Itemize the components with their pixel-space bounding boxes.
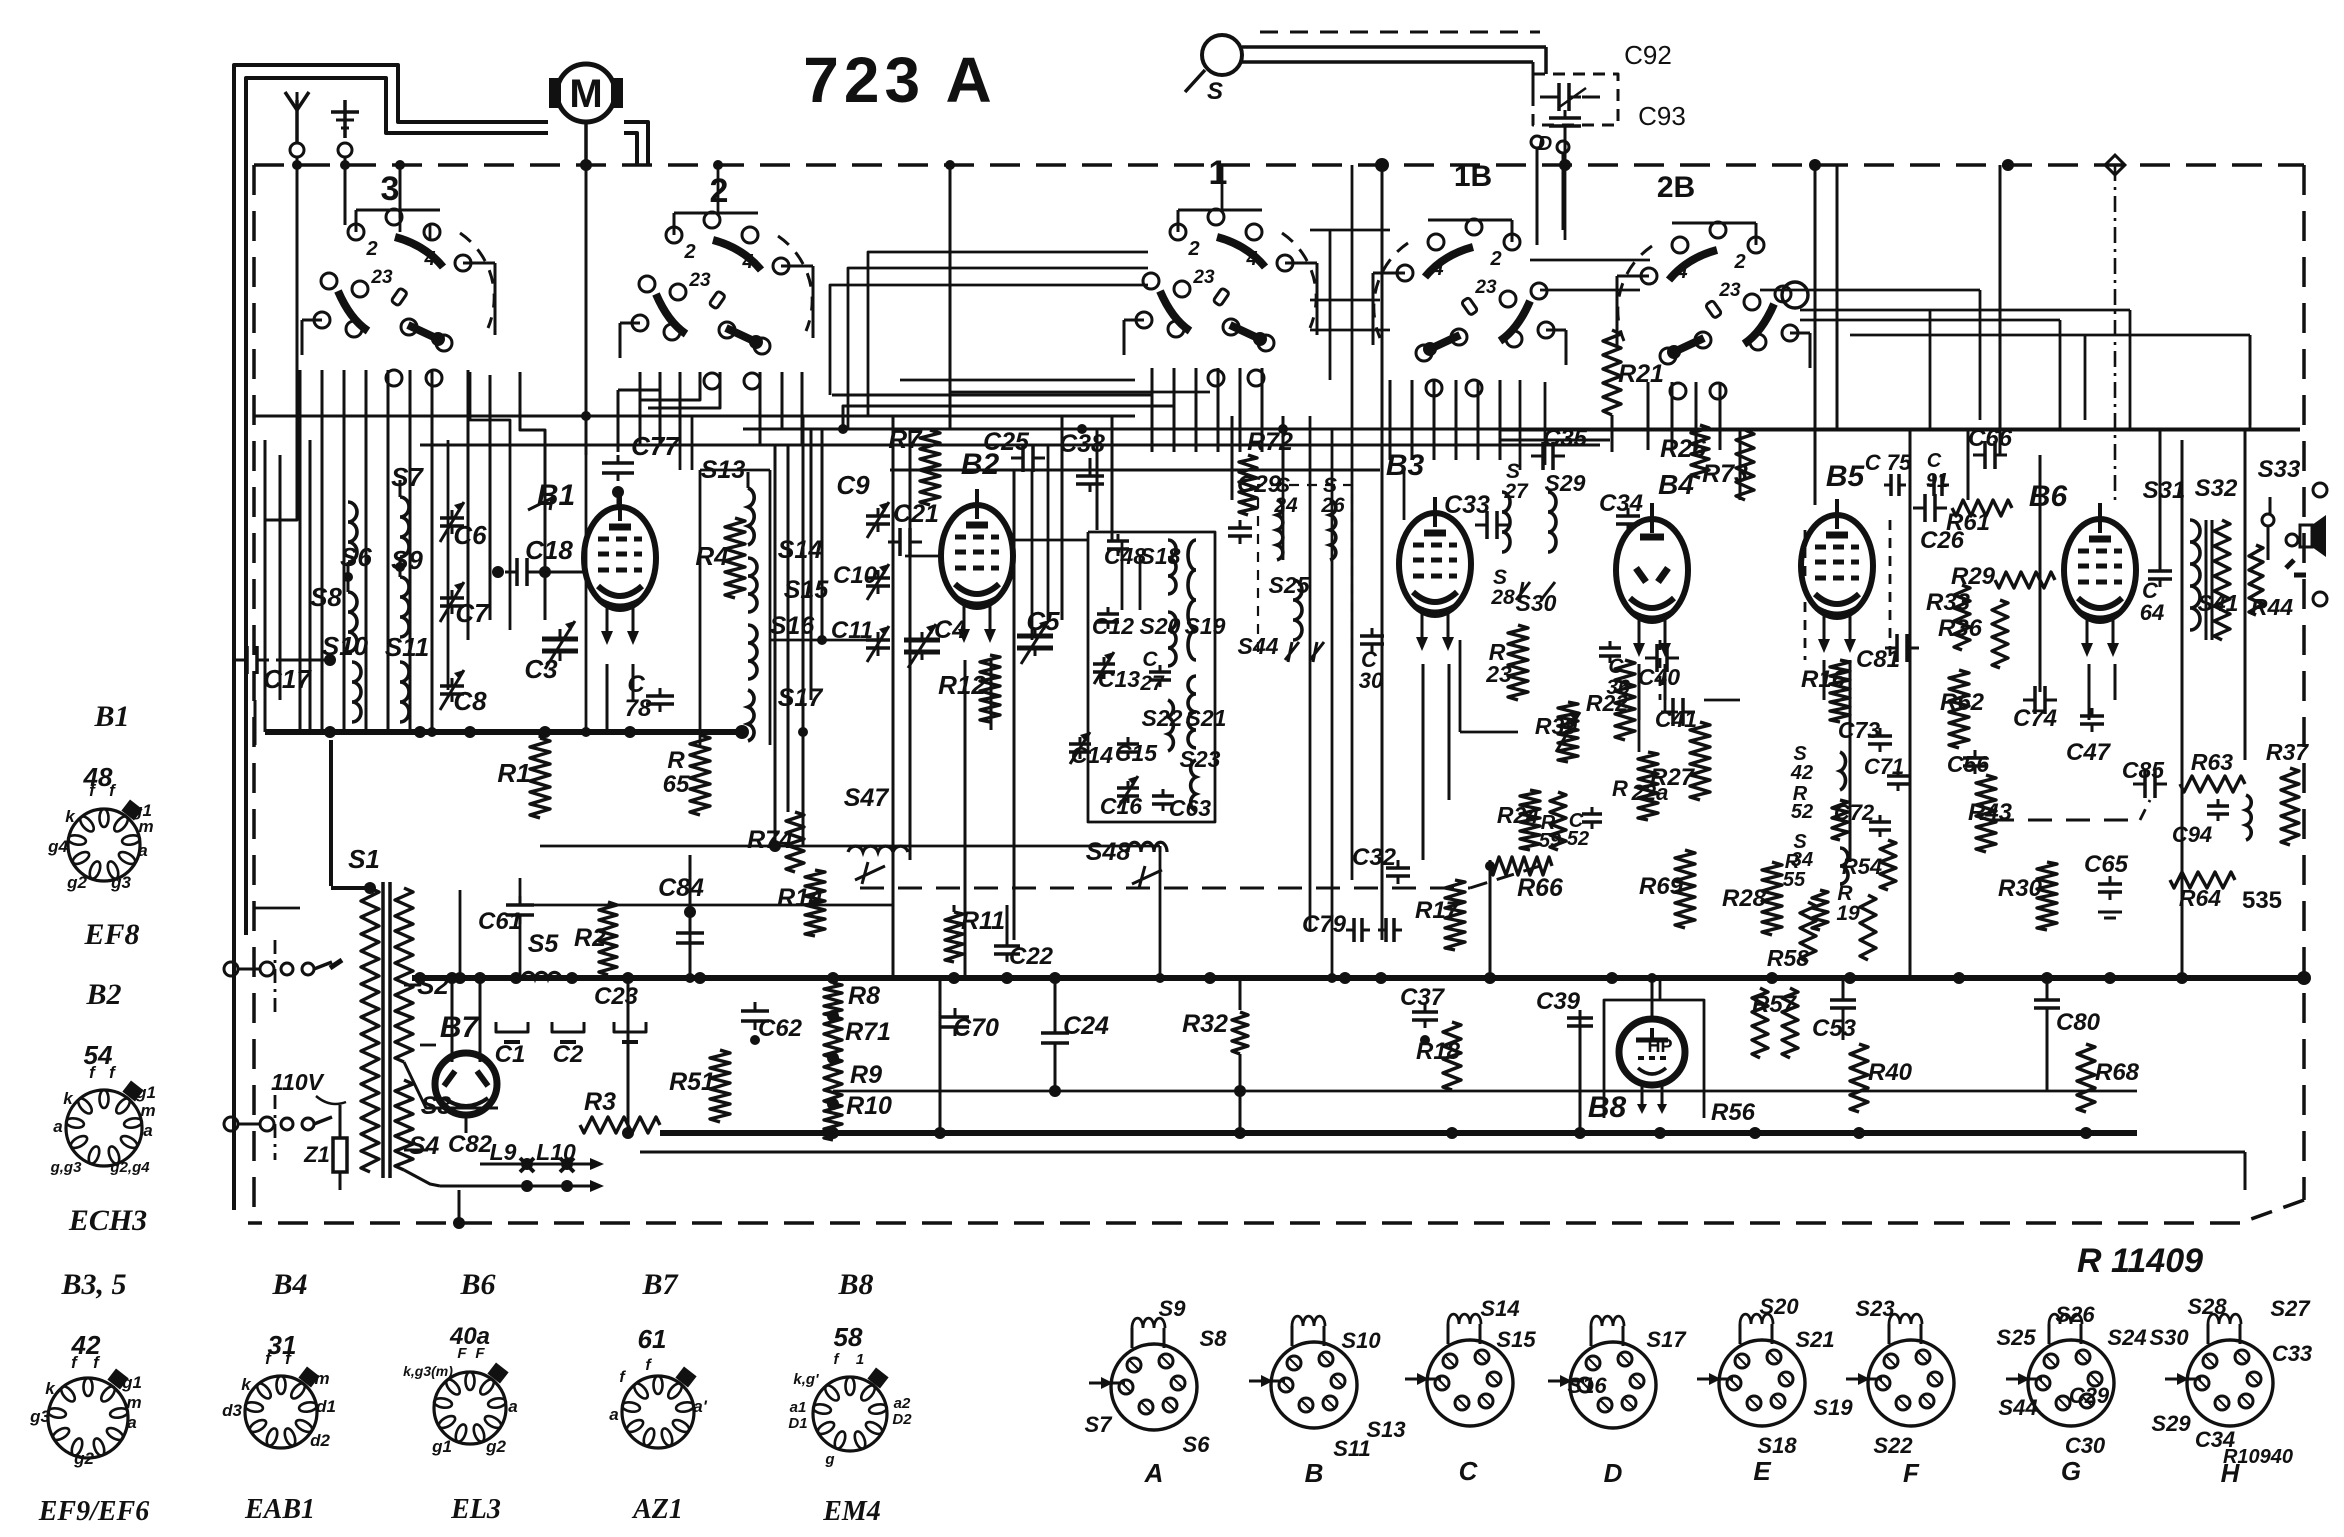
capacitor C21 [888, 500, 939, 556]
svg-text:C33: C33 [1444, 491, 1490, 519]
svg-text:k,g': k,g' [793, 1371, 819, 1388]
svg-text:S29: S29 [1545, 470, 1586, 496]
svg-text:C25: C25 [983, 428, 1030, 456]
svg-text:S19: S19 [1813, 1395, 1853, 1420]
coil S5 [522, 930, 561, 978]
svg-text:C93: C93 [1638, 101, 1686, 131]
wire v 1 [1381, 165, 1384, 940]
wire v 7 [1489, 860, 1492, 978]
svg-text:S13: S13 [1366, 1417, 1405, 1442]
svg-text:C17: C17 [263, 664, 312, 694]
socket B1 label [93, 700, 129, 733]
wire verticals B1B2 band [770, 416, 822, 851]
switch wafer 2B [1617, 171, 1810, 399]
tube B7 [435, 1011, 497, 1115]
wire v 4 [949, 165, 952, 430]
svg-text:C24: C24 [1063, 1012, 1109, 1040]
wire bus ground [622, 1127, 2137, 1139]
svg-text:B7: B7 [440, 1011, 480, 1044]
wire b4 bottom [1639, 700, 1678, 752]
socket B8 pin58 [834, 1322, 863, 1352]
resistor R16 [1801, 660, 1850, 722]
svg-text:S26: S26 [2055, 1302, 2095, 1327]
svg-text:27: 27 [1503, 480, 1529, 503]
svg-text:S41: S41 [2198, 590, 2239, 616]
resistor R2 [574, 902, 617, 975]
svg-text:ECH3: ECH3 [68, 1204, 147, 1237]
wire extra verticals 2 [1032, 445, 1048, 640]
wire transformer bottom [404, 1170, 465, 1229]
svg-text:k: k [63, 1089, 74, 1108]
svg-text:g2,g4: g2,g4 [109, 1159, 150, 1176]
capacitor C18 [492, 535, 586, 586]
fuse Z1 [303, 1105, 347, 1190]
svg-text:S8: S8 [1200, 1326, 1228, 1351]
wire v 8 [1579, 1010, 1582, 1133]
capacitor C33 [1444, 491, 1509, 539]
resistor R36 [1938, 600, 2008, 668]
svg-text:S21: S21 [1186, 705, 1227, 731]
wire h 640 [770, 635, 878, 656]
svg-text:g2: g2 [66, 873, 87, 892]
capacitor C93 [1549, 101, 1686, 171]
resistor R24 [1497, 790, 1540, 850]
coil S11 [385, 632, 429, 722]
svg-text:R10: R10 [846, 1092, 892, 1120]
transformer S2 secondary [395, 888, 449, 1062]
tube B5 [1801, 460, 1873, 653]
wire r21 [1611, 415, 1614, 452]
switch wafer 1B [1373, 160, 1566, 396]
capacitor C38 [1059, 430, 1105, 492]
svg-text:1: 1 [856, 1351, 864, 1368]
svg-text:R51: R51 [669, 1068, 715, 1096]
resistor R8 [824, 982, 880, 1016]
svg-text:k,g3(m): k,g3(m) [403, 1363, 453, 1379]
capacitor C82 [448, 1131, 574, 1192]
svg-text:C: C [1927, 450, 1942, 472]
switch S33 [2258, 456, 2327, 606]
svg-text:S14: S14 [1480, 1296, 1519, 1321]
capacitor C73 [1838, 717, 1892, 752]
svg-text:S16: S16 [1567, 1373, 1607, 1398]
svg-text:C94: C94 [2172, 822, 2212, 847]
svg-text:59: 59 [1539, 830, 1562, 852]
wire extra right verticals [1930, 310, 2085, 430]
wire v motor [585, 165, 588, 455]
label 110V [271, 1069, 346, 1104]
resistor R10 [824, 1010, 892, 1140]
socket B1 [47, 781, 153, 892]
resistor R21 [1603, 330, 1664, 415]
coil S29 [1545, 470, 1586, 552]
capacitor C37 [1400, 984, 1446, 1045]
wire top h1 [254, 415, 1135, 418]
svg-text:R37: R37 [2266, 739, 2309, 765]
svg-text:R14: R14 [777, 884, 823, 912]
svg-text:m: m [314, 1369, 329, 1388]
svg-text:R63: R63 [2191, 749, 2233, 775]
capacitor C75 [1865, 450, 1912, 496]
wire extra verticals mid [680, 416, 1165, 983]
svg-text:42: 42 [1790, 762, 1813, 784]
svg-text:S28: S28 [2187, 1294, 2227, 1319]
transformer core [383, 882, 390, 1178]
capacitor C34 [1599, 490, 1643, 532]
tube B2 [941, 448, 1013, 643]
svg-text:a: a [127, 1413, 136, 1432]
wire v b4 legs [1639, 664, 1665, 720]
wire right top verticals [2249, 335, 2252, 430]
capacitor C94 [2172, 795, 2251, 847]
transformer S4 winding [395, 1080, 439, 1170]
capacitor C63 [1152, 789, 1211, 821]
wire staircase sw1 left [832, 368, 1174, 430]
socket B3-5 label [60, 1268, 126, 1301]
wire v left pair [265, 440, 280, 732]
socket B4 [222, 1349, 336, 1450]
svg-text:23: 23 [1474, 277, 1497, 298]
wire v mid1 [1054, 978, 1057, 1091]
svg-text:a1: a1 [790, 1399, 807, 1416]
capacitor C32 [1352, 844, 1410, 884]
svg-text:S29: S29 [2151, 1411, 2191, 1436]
svg-text:R71: R71 [845, 1018, 891, 1046]
resistor R61 [1946, 500, 2012, 536]
svg-text:C14: C14 [1071, 742, 1113, 768]
svg-text:28: 28 [1490, 586, 1515, 609]
resistor R39 [1535, 702, 1580, 762]
resistor R51 [669, 1050, 730, 1122]
wire IF box1 [1088, 532, 1215, 822]
socket B8 label [837, 1268, 873, 1301]
wire v 3 [2114, 165, 2117, 505]
capacitor C81 [1856, 634, 1919, 673]
svg-text:C12: C12 [1092, 613, 1134, 639]
capacitor C78 [625, 671, 674, 722]
svg-text:61: 61 [638, 1324, 667, 1354]
svg-text:m: m [138, 817, 153, 836]
resistor R22 [1586, 660, 1635, 740]
svg-text:S25: S25 [1996, 1325, 2036, 1350]
wire h sw1B band [1310, 260, 2060, 430]
resistor R52 [1791, 783, 1848, 840]
svg-text:S9: S9 [1159, 1296, 1187, 1321]
svg-text:C85: C85 [2122, 757, 2165, 783]
svg-text:G: G [2061, 1456, 2081, 1486]
wire v b2 legs [965, 660, 991, 978]
svg-text:S7: S7 [1085, 1412, 1114, 1437]
capacitor C2 [552, 1022, 584, 1068]
svg-text:S8: S8 [310, 582, 342, 612]
svg-text:C33: C33 [2272, 1341, 2312, 1366]
svg-text:R29: R29 [1951, 563, 1996, 590]
coil unit C [1366, 1296, 1536, 1486]
wire h 540 [905, 540, 1088, 556]
svg-text:C23: C23 [594, 983, 639, 1010]
svg-text:C7: C7 [455, 598, 490, 628]
capacitor C23 [594, 983, 646, 1042]
svg-text:C: C [1608, 655, 1624, 678]
resistor R63 [2180, 749, 2245, 792]
svg-text:S24: S24 [2107, 1325, 2146, 1350]
capacitor C5 variable [1017, 606, 1060, 664]
svg-text:C 75: C 75 [1865, 450, 1912, 475]
wire h4 [1500, 429, 2300, 432]
svg-text:HP: HP [1647, 1036, 1672, 1056]
svg-text:D: D [1604, 1458, 1623, 1488]
capacitor C56 [1947, 750, 1989, 777]
svg-text:C8: C8 [453, 686, 487, 716]
wire bundle sw1 left [830, 252, 1148, 429]
resistor R30 [1998, 862, 2057, 930]
motor M [549, 64, 623, 171]
wire below ground [640, 1152, 2245, 1190]
wire v 12 [939, 978, 942, 1133]
switch S28 S30 [1490, 566, 1556, 616]
resistor R72 [1239, 428, 1293, 515]
svg-text:F: F [1903, 1458, 1920, 1488]
switch S44 [1238, 633, 1324, 662]
svg-text:R: R [667, 747, 685, 774]
svg-text:C53: C53 [1812, 1015, 1857, 1042]
wire v 1565 drop [1564, 165, 1567, 240]
coil S20 [1140, 612, 1181, 666]
svg-text:S: S [1207, 78, 1223, 105]
svg-text:23: 23 [370, 267, 393, 288]
capacitor C25 [983, 428, 1045, 472]
socket B2 label [85, 978, 121, 1011]
socket EF9 label [38, 1496, 149, 1527]
capacitor C13 variable [1093, 652, 1140, 692]
svg-text:36: 36 [1606, 676, 1630, 699]
coil S10 [322, 631, 369, 722]
svg-text:R18: R18 [1416, 1038, 1461, 1065]
svg-text:C63: C63 [1169, 795, 1211, 821]
svg-text:C10: C10 [833, 562, 878, 589]
svg-text:R44: R44 [2251, 594, 2293, 620]
title 723 A [803, 44, 996, 116]
capacitor C29 [1228, 471, 1282, 544]
svg-text:52: 52 [1567, 828, 1589, 850]
resistor R66 [1485, 857, 1564, 902]
svg-text:a: a [53, 1117, 62, 1136]
svg-text:R3: R3 [584, 1088, 616, 1116]
capacitor C14 variable [1069, 732, 1113, 768]
wire verticals mid band [893, 416, 1232, 978]
socket B6 pin40 [449, 1323, 490, 1350]
resistor R55 [1783, 851, 1828, 930]
svg-text:EF8: EF8 [83, 918, 139, 951]
svg-text:B1: B1 [537, 479, 575, 512]
capacitor C27 [1139, 648, 1171, 695]
svg-text:S1: S1 [348, 844, 380, 874]
svg-text:B7: B7 [641, 1268, 678, 1301]
svg-text:S17: S17 [778, 684, 824, 712]
svg-text:R69: R69 [1639, 873, 1684, 900]
socket B4 label [271, 1268, 307, 1301]
socket B3 [29, 1353, 142, 1468]
svg-text:535: 535 [2242, 887, 2282, 914]
svg-text:C62: C62 [758, 1015, 803, 1042]
resistor R23 [1485, 625, 1528, 700]
svg-text:C15: C15 [1115, 740, 1158, 766]
capacitor C9 [836, 470, 890, 538]
wire box B8 [1604, 973, 1704, 1118]
svg-text:d1: d1 [316, 1397, 336, 1416]
socket B7 label [641, 1268, 678, 1301]
resistor R57 [1752, 988, 1798, 1058]
socket B2 pin54 [84, 1040, 113, 1070]
svg-text:C4: C4 [934, 616, 966, 644]
svg-text:78: 78 [625, 695, 652, 722]
wire bundle right of 2B [1800, 310, 2250, 429]
svg-text:B6: B6 [2029, 480, 2068, 513]
wire dashed right mid [1990, 800, 2150, 820]
wire fan under switch 2B [1648, 382, 1720, 450]
svg-text:19: 19 [1836, 902, 1860, 925]
wire fan under switch 1B [1390, 380, 1500, 460]
resistor R37 [2266, 739, 2309, 845]
wire long h2b [743, 424, 2300, 434]
wire left inner verticals [427, 440, 448, 737]
svg-text:S32: S32 [2195, 475, 2238, 502]
socket EL3 label [450, 1494, 501, 1525]
svg-text:S27: S27 [2270, 1296, 2311, 1321]
capacitor C4 variable [904, 616, 966, 668]
svg-text:C29: C29 [2069, 1383, 2110, 1408]
resistor R1 [497, 732, 550, 818]
wire v 5 [2181, 440, 2184, 978]
capacitor C72 [1834, 800, 1891, 837]
transformer S3 tap [404, 1062, 498, 1120]
resistor R3 [580, 1088, 660, 1133]
coil unit D [1548, 1316, 1687, 1488]
resistor R40 [1850, 1044, 1913, 1112]
wire D drop [1537, 148, 1563, 245]
wire top h2 [420, 444, 1600, 447]
svg-text:4: 4 [741, 251, 753, 273]
svg-text:S11: S11 [1333, 1436, 1371, 1461]
capacitor C70 [941, 1008, 999, 1042]
coil S26 [1320, 474, 1345, 560]
wire 1B drops [1520, 380, 1545, 470]
capacitor C11 [831, 617, 890, 662]
capacitor C17 [235, 646, 336, 694]
svg-text:R56: R56 [1711, 1099, 1756, 1126]
svg-text:a': a' [693, 1397, 707, 1416]
label R11409 [2077, 1242, 2203, 1280]
capacitor C48 [1104, 534, 1146, 569]
svg-text:723 A: 723 A [803, 44, 996, 116]
socket B7sock [609, 1357, 707, 1448]
wire h under anode [540, 840, 1135, 852]
svg-text:S33: S33 [2258, 456, 2301, 483]
svg-text:2B: 2B [1657, 171, 1695, 204]
svg-text:EF9/EF6: EF9/EF6 [38, 1496, 149, 1527]
coil S21 [1186, 676, 1227, 748]
svg-text:C6: C6 [453, 520, 487, 550]
capacitor C3 variable [524, 621, 578, 684]
svg-text:g3: g3 [29, 1407, 50, 1426]
capacitor C6 [440, 502, 487, 550]
resistor R71 [824, 1016, 891, 1058]
svg-text:S5: S5 [528, 930, 560, 958]
antenna symbol [285, 92, 309, 157]
svg-text:A: A [1144, 1458, 1164, 1488]
svg-text:B2: B2 [85, 978, 121, 1011]
svg-text:S11: S11 [385, 632, 429, 662]
wire extra mid horizontals [520, 380, 1210, 905]
resistor R43 [1968, 775, 2013, 852]
coil unit H [2149, 1294, 2312, 1488]
svg-text:R26: R26 [1660, 435, 1707, 463]
svg-text:EL3: EL3 [450, 1494, 501, 1525]
resistor R27 [1650, 722, 1710, 800]
coil S22 [1142, 700, 1183, 751]
wire verticals right band [1740, 165, 2270, 978]
wire v 1283 [1282, 429, 1285, 560]
svg-text:EAB1: EAB1 [244, 1494, 315, 1525]
svg-text:R64: R64 [2179, 885, 2221, 911]
socket ECH3 label [68, 1204, 147, 1237]
resistor R14 [777, 870, 825, 936]
svg-text:R: R [1612, 776, 1628, 801]
svg-text:S19: S19 [1185, 613, 1226, 639]
svg-text:C82: C82 [448, 1131, 493, 1158]
wire bus anode [265, 725, 749, 739]
wire fan under switch 1 [1152, 368, 1262, 452]
wire v motor ext [581, 411, 591, 737]
svg-text:C71: C71 [1864, 754, 1904, 779]
svg-text:B1: B1 [93, 700, 129, 733]
svg-text:2: 2 [1733, 251, 1745, 273]
svg-text:C92: C92 [1624, 40, 1672, 70]
resistor R54 [1842, 840, 1896, 890]
svg-text:R66: R66 [1517, 874, 1564, 902]
svg-text:B8: B8 [1588, 1091, 1627, 1124]
resistor R65 [663, 735, 710, 815]
svg-text:m: m [126, 1393, 141, 1412]
svg-text:110V: 110V [271, 1069, 325, 1095]
capacitor C52 [1567, 807, 1602, 850]
coil S31 [2143, 477, 2200, 630]
wire coil links [343, 557, 405, 592]
tube B8 [1588, 1019, 1685, 1124]
frame dashed border [248, 165, 2304, 1223]
svg-text:55: 55 [1783, 869, 1806, 891]
wire bus B+ [412, 971, 2311, 985]
svg-text:B6: B6 [459, 1268, 495, 1301]
wire mains dashdot [274, 940, 277, 1160]
svg-text:g1: g1 [135, 1083, 156, 1102]
capacitor C62 [741, 1002, 803, 1045]
capacitor C84 [658, 874, 704, 952]
tube B4 [1616, 469, 1694, 657]
coil S24 [1273, 474, 1298, 560]
svg-text:R43: R43 [1968, 799, 2013, 826]
svg-text:AZ1: AZ1 [631, 1494, 683, 1525]
capacitor C66 [1968, 425, 2013, 469]
svg-text:R54: R54 [1842, 854, 1882, 879]
coil unit B [1249, 1316, 1381, 1488]
socket B4 pin31 [268, 1330, 297, 1360]
wire nest left of switch3 [255, 372, 545, 745]
wire v b1 legs [607, 664, 633, 732]
capacitor C7 [440, 582, 490, 628]
svg-text:S18: S18 [1757, 1433, 1797, 1458]
wire v c61 [455, 878, 520, 983]
